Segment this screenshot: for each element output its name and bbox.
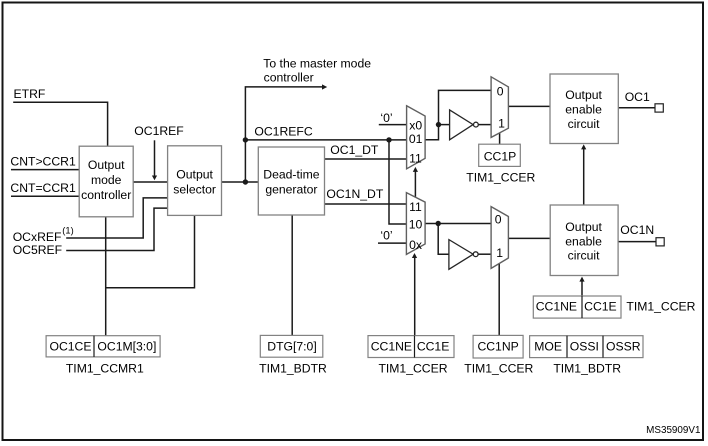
wire CC1P mux output to output enable circuit 1 bbox=[508, 105, 550, 107]
register TIM1_BDTR: MOE / OSSI / OSSR bbox=[530, 336, 643, 376]
svg-text:To the master mode: To the master mode bbox=[263, 56, 371, 70]
wire CC1P select bbox=[499, 133, 501, 145]
node main wire junction bbox=[243, 179, 248, 184]
svg-text:circuit: circuit bbox=[568, 249, 600, 263]
arrowhead into OEC1 bbox=[581, 144, 586, 149]
wire ETRF to output mode controller bbox=[13, 102, 107, 146]
svg-text:OC1M[3:0]: OC1M[3:0] bbox=[97, 339, 156, 353]
svg-text:0: 0 bbox=[497, 85, 504, 99]
svg-text:OC1: OC1 bbox=[625, 90, 650, 104]
register TIM1_CCER: CC1NP bbox=[464, 335, 533, 375]
block Output enable circuit 2 bbox=[550, 205, 618, 276]
svg-text:10: 10 bbox=[409, 218, 423, 232]
svg-text:Output: Output bbox=[176, 168, 213, 182]
register TIM1_CCER: CC1NE / CC1E (bottom) bbox=[368, 336, 454, 376]
wire output selector down and left bbox=[106, 216, 195, 288]
wire node riser to master mode controller arrow bbox=[245, 87, 322, 182]
wire CC1NP select down to register bbox=[498, 263, 500, 336]
arrowhead select upper mux bbox=[413, 167, 418, 172]
svg-text:CC1E: CC1E bbox=[584, 300, 617, 314]
svg-text:‘0’: ‘0’ bbox=[380, 111, 392, 125]
svg-text:OC1REFC: OC1REFC bbox=[254, 124, 312, 138]
svg-text:11: 11 bbox=[409, 152, 422, 166]
register CC1P bbox=[466, 144, 535, 185]
svg-text:selector: selector bbox=[173, 182, 216, 196]
node upper inverter tap junction bbox=[436, 122, 441, 127]
register TIM1_CCMR1: OC1CE / OC1M[3:0] bbox=[46, 336, 160, 376]
svg-text:generator: generator bbox=[265, 182, 317, 196]
node OC1REFC junction bbox=[243, 137, 248, 142]
svg-text:CC1P: CC1P bbox=[484, 149, 517, 163]
svg-text:OCxREF: OCxREF bbox=[13, 230, 62, 244]
svg-text:OC1N: OC1N bbox=[620, 223, 654, 237]
wire OC1REF arrow line bbox=[154, 140, 156, 176]
svg-text:CNT=CCR1: CNT=CCR1 bbox=[10, 181, 76, 195]
svg-text:TIM1_BDTR: TIM1_BDTR bbox=[553, 362, 621, 376]
svg-text:TIM1_CCER: TIM1_CCER bbox=[464, 362, 533, 376]
svg-text:MOE: MOE bbox=[534, 339, 562, 353]
svg-text:mode: mode bbox=[91, 173, 122, 187]
svg-text:CC1NE: CC1NE bbox=[371, 339, 412, 353]
wire CC1NE/CC1E register up to OEC2 bottom bbox=[581, 281, 583, 296]
svg-text:MS35909V1: MS35909V1 bbox=[646, 425, 701, 436]
svg-text:controller: controller bbox=[81, 188, 131, 202]
svg-text:enable: enable bbox=[565, 103, 602, 117]
wire OC1N output to pad bbox=[618, 241, 656, 243]
wire lower mux output to CC1NP mux 0 input bbox=[425, 223, 491, 225]
svg-text:1: 1 bbox=[498, 116, 505, 130]
pad OC1N bbox=[656, 238, 664, 246]
wire mux select from CC1NE/CC1E register up to lower mux bbox=[414, 257, 416, 336]
wire inverter U1 output to CC1P mux 1 input bbox=[478, 124, 491, 126]
block Output enable circuit 1 bbox=[550, 74, 618, 144]
wire CNT>CCR1 input bbox=[11, 169, 79, 171]
svg-text:OSSR: OSSR bbox=[606, 339, 641, 353]
svg-text:OC1CE: OC1CE bbox=[50, 339, 92, 353]
arrowhead into OEC2 bbox=[579, 277, 584, 282]
svg-text:ETRF: ETRF bbox=[14, 87, 46, 101]
wire OC1_DT bbox=[325, 158, 407, 160]
arrowhead OC1REF down bbox=[152, 176, 157, 181]
svg-text:controller: controller bbox=[264, 70, 314, 84]
inverter U1 bbox=[450, 110, 479, 140]
arrowhead to master mode controller bbox=[322, 84, 327, 89]
wire inverter U2 output to CC1NP mux 1 input bbox=[478, 253, 491, 255]
svg-text:CC1NP: CC1NP bbox=[477, 339, 518, 353]
svg-text:TIM1_CCER: TIM1_CCER bbox=[466, 171, 535, 185]
block Output selector bbox=[168, 146, 222, 216]
arrowhead select lower mux bbox=[412, 253, 417, 258]
svg-text:DTG[7:0]: DTG[7:0] bbox=[267, 339, 316, 353]
svg-text:0: 0 bbox=[495, 213, 502, 227]
svg-text:TIM1_BDTR: TIM1_BDTR bbox=[259, 362, 327, 376]
wire OCxREF to output selector bbox=[66, 198, 167, 238]
node lower inverter tap junction bbox=[436, 221, 441, 226]
svg-text:Output: Output bbox=[565, 220, 602, 234]
svg-text:OC1REF: OC1REF bbox=[134, 124, 183, 138]
svg-text:1: 1 bbox=[496, 246, 503, 260]
wire output mode controller to output selector bbox=[133, 181, 167, 183]
mux CC1NP polarity bbox=[491, 207, 508, 269]
wire tap down to inverter U2 input bbox=[438, 224, 449, 255]
mux dead-time upper bbox=[407, 106, 426, 169]
svg-text:CC1NE: CC1NE bbox=[536, 300, 577, 314]
svg-text:circuit: circuit bbox=[568, 117, 600, 131]
wire OEC2 top to OEC1 bottom bbox=[583, 149, 585, 206]
svg-text:11: 11 bbox=[409, 200, 422, 214]
svg-text:01: 01 bbox=[409, 132, 423, 146]
wire OC5REF to output selector bbox=[66, 208, 167, 250]
wire mux select segment between muxes bbox=[414, 171, 416, 197]
mux dead-time lower bbox=[406, 193, 425, 255]
wire dead-time generator down to DTG register bbox=[291, 215, 293, 336]
wire upper mux output bypass to CC1P mux 0 input bbox=[425, 90, 491, 139]
svg-text:OC1_DT: OC1_DT bbox=[330, 143, 379, 157]
svg-text:(1): (1) bbox=[62, 226, 73, 236]
wire OC1REFC branch down to lower mux 10 input bbox=[389, 140, 407, 224]
svg-text:x0: x0 bbox=[409, 118, 422, 132]
svg-text:0x: 0x bbox=[409, 238, 422, 252]
register TIM1_CCER: CC1NE / CC1E (mid right) bbox=[533, 296, 695, 318]
node OC1REFC branch junction bbox=[386, 137, 391, 142]
block Dead-time generator bbox=[258, 147, 324, 215]
register TIM1_BDTR: DTG[7:0] bbox=[259, 335, 327, 375]
svg-text:Dead-time: Dead-time bbox=[263, 168, 319, 182]
wire OC1 output to pad bbox=[618, 107, 655, 109]
svg-text:OSSI: OSSI bbox=[570, 339, 599, 353]
wire CC1NP mux output to output enable circuit 2 bbox=[508, 237, 550, 239]
svg-text:enable: enable bbox=[565, 234, 602, 248]
wire OC1REFC to upper mux 01 input bbox=[245, 139, 406, 141]
wire CNT=CCR1 input bbox=[11, 195, 79, 197]
svg-text:TIM1_CCER: TIM1_CCER bbox=[378, 362, 447, 376]
pad OC1 bbox=[655, 104, 663, 112]
svg-text:Output: Output bbox=[88, 158, 125, 172]
mux CC1P polarity bbox=[491, 77, 508, 138]
wire tap to inverter U1 input bbox=[439, 124, 450, 126]
svg-text:TIM1_CCER: TIM1_CCER bbox=[626, 299, 695, 313]
block Output mode controller bbox=[79, 146, 133, 217]
wire output selector to dead-time generator bbox=[222, 181, 259, 183]
svg-text:OC5REF: OC5REF bbox=[13, 243, 62, 257]
svg-text:Output: Output bbox=[565, 88, 602, 102]
wire output mode controller down to TIM1_CCMR1 bbox=[105, 217, 107, 336]
wire '0' stub lower mux bbox=[378, 242, 406, 244]
svg-text:CNT>CCR1: CNT>CCR1 bbox=[10, 155, 76, 169]
svg-text:OC1N_DT: OC1N_DT bbox=[326, 187, 383, 201]
wire '0' stub upper mux bbox=[379, 124, 407, 126]
inverter U2 bbox=[449, 240, 478, 270]
svg-text:‘0’: ‘0’ bbox=[380, 229, 392, 243]
svg-text:CC1E: CC1E bbox=[417, 339, 450, 353]
svg-text:TIM1_CCMR1: TIM1_CCMR1 bbox=[66, 362, 144, 376]
wire OC1N_DT bbox=[325, 203, 407, 205]
